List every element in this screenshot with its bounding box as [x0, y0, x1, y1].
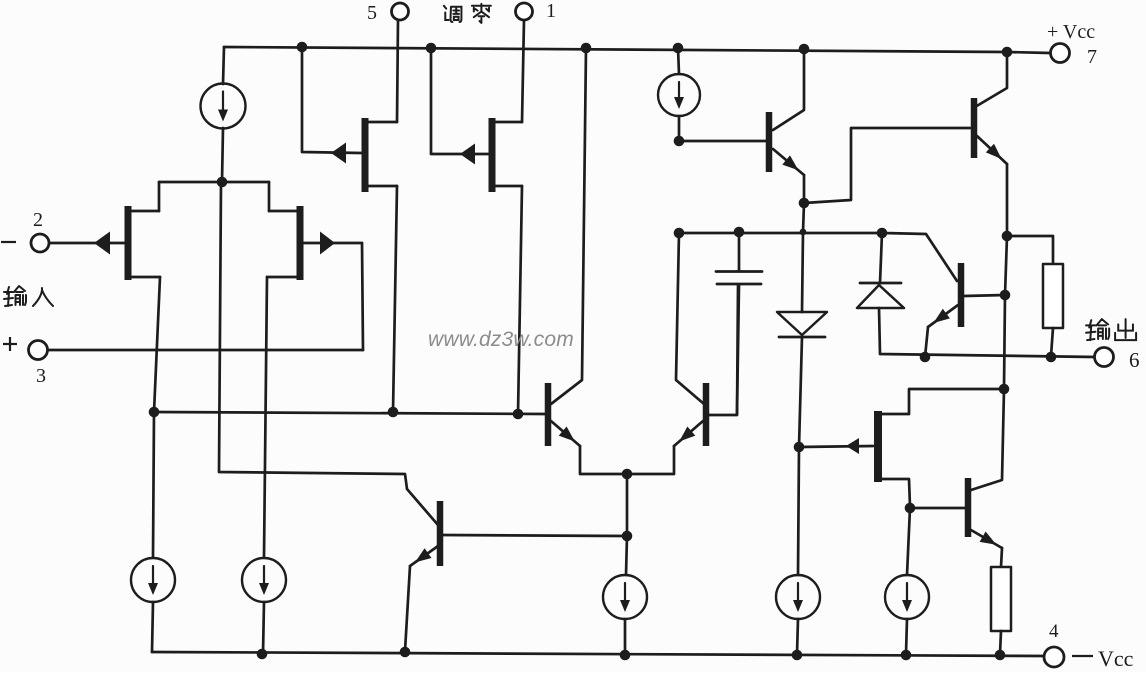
svg-text:www.dz3w.com: www.dz3w.com: [428, 328, 574, 351]
svg-text:4: 4: [1049, 621, 1059, 642]
svg-text:+ Vcc: + Vcc: [1047, 21, 1095, 43]
svg-text:2: 2: [33, 209, 43, 231]
svg-text:5: 5: [367, 2, 377, 24]
svg-text:6: 6: [1129, 348, 1140, 372]
svg-text:3: 3: [36, 365, 46, 387]
svg-text:1: 1: [546, 0, 556, 22]
svg-text:7: 7: [1087, 46, 1097, 68]
svg-text:Vcc: Vcc: [1098, 646, 1134, 671]
